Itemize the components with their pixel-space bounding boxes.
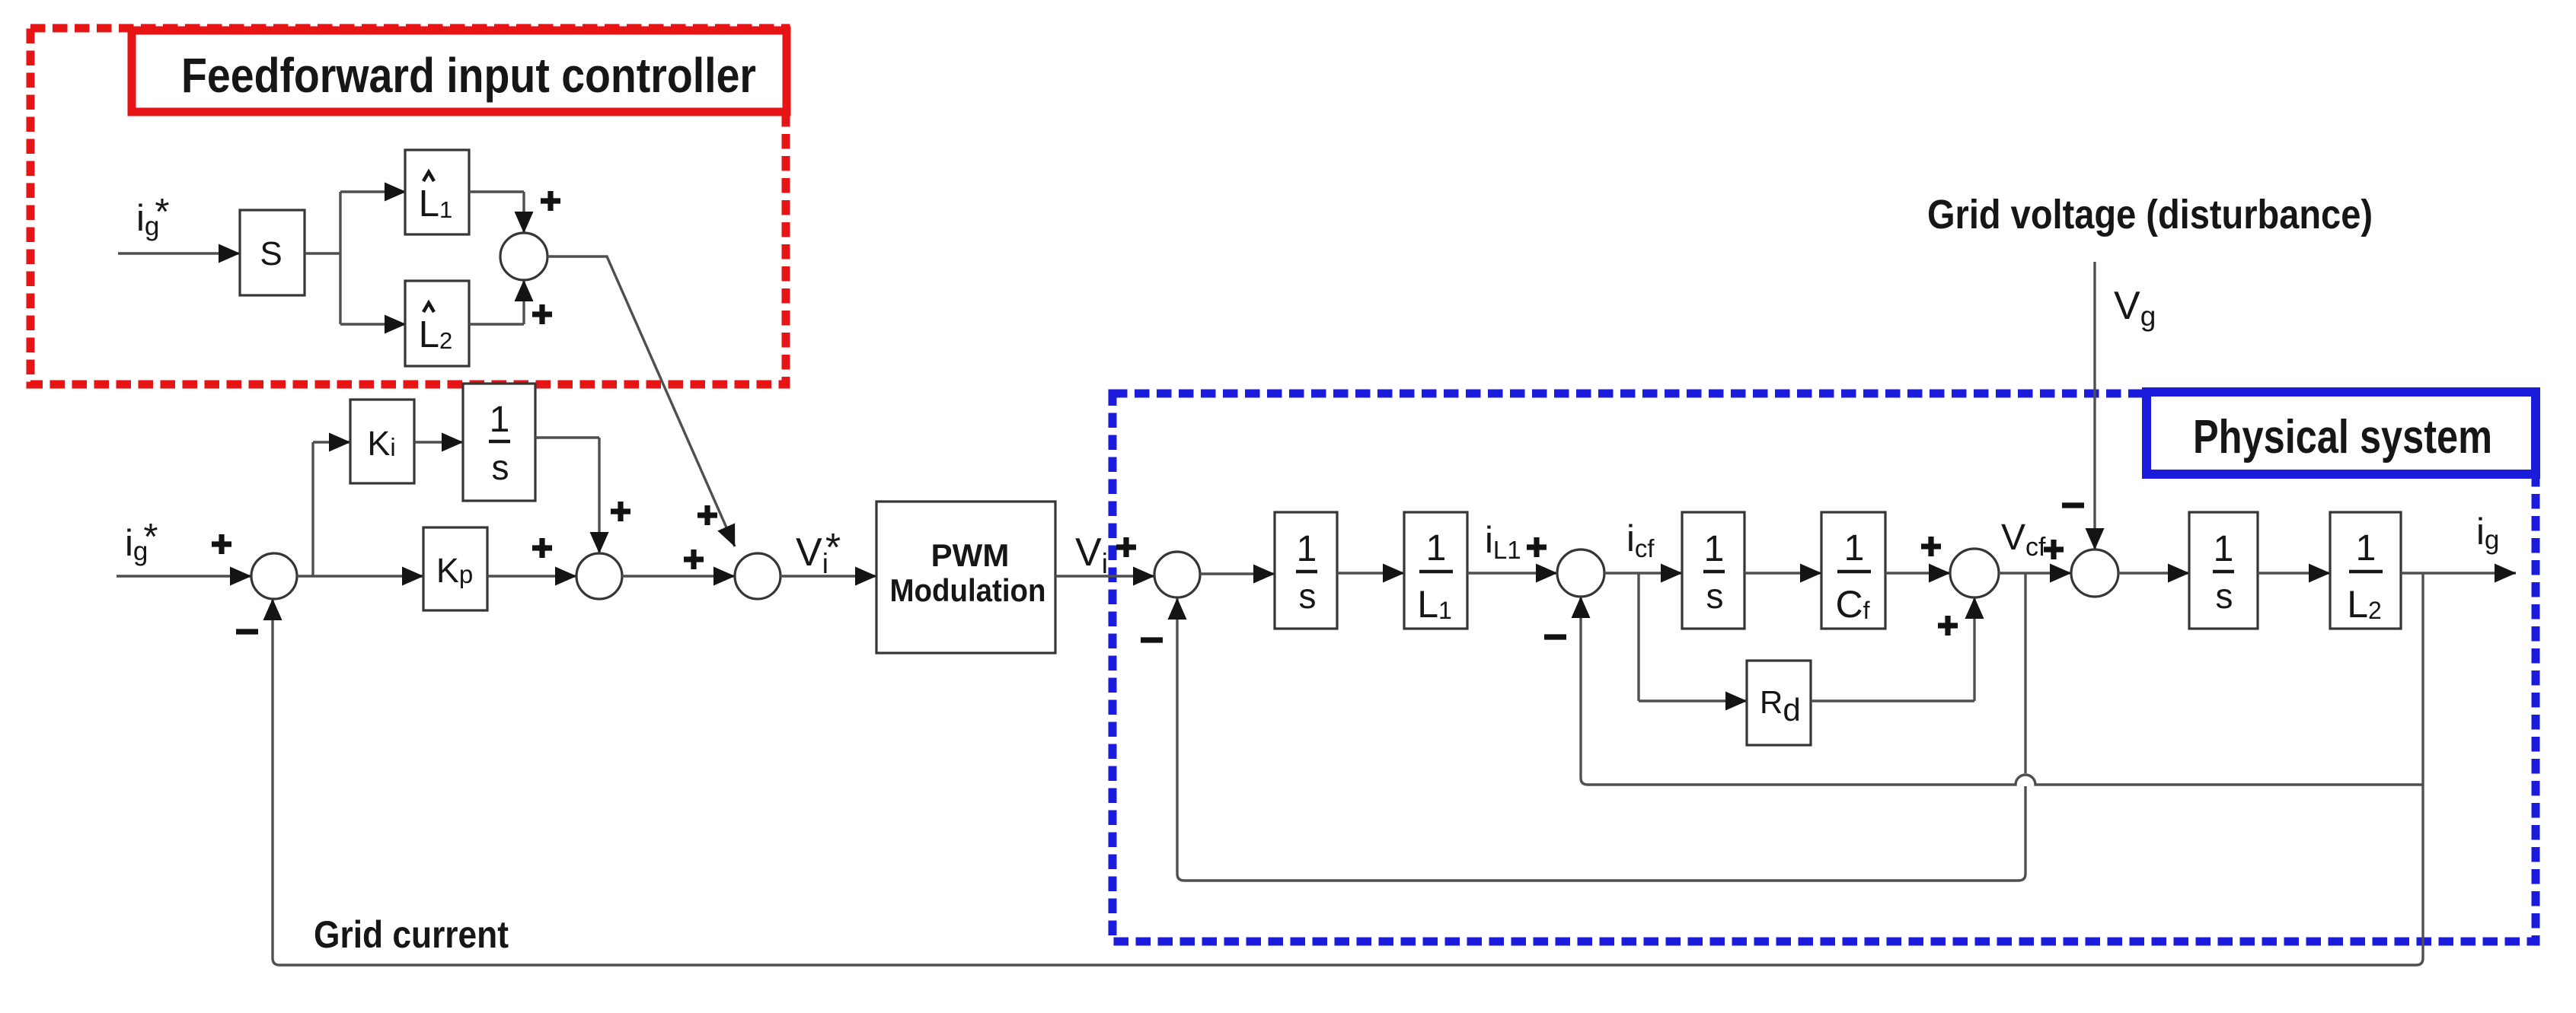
plus sign Vcf input to sum7	[2044, 540, 2064, 559]
wire branch to L1hat	[340, 190, 406, 193]
plus sign sum2 output into sum3	[684, 550, 704, 569]
summing junction sum3	[735, 553, 780, 599]
feedforward controller dashed boundary box	[30, 28, 786, 384]
wire branch down to Rd	[1637, 573, 1639, 701]
feedforward controller title box	[132, 30, 787, 112]
block Rd damping	[1747, 661, 1811, 745]
svg-text:1: 1	[1704, 529, 1725, 569]
minus sign sum5 feedback input	[1544, 634, 1566, 639]
summing junction feedforward	[500, 233, 547, 280]
svg-text:Vi*: Vi*	[796, 526, 841, 579]
plus sign iL1 input to sum5	[1527, 537, 1547, 557]
block gain 1/Cf	[1821, 512, 1885, 629]
wire branch vertical	[339, 192, 341, 324]
svg-text:s: s	[1299, 576, 1317, 616]
wire branch up to Ki	[311, 442, 314, 576]
wire Vcf feedback to sum4	[2024, 573, 2026, 773]
plus sign 1/Cf input to sum6	[1921, 537, 1941, 556]
block PWM modulation	[876, 502, 1055, 653]
block Kp	[423, 527, 487, 610]
wire L1hat to feedforward sum	[469, 190, 524, 193]
wire sum3 to PWM	[780, 575, 876, 577]
plus sign Kp input to sum2	[532, 538, 552, 558]
block L1hat	[405, 150, 469, 234]
block integrator 1/s plant3	[2189, 512, 2258, 629]
wire branch to L2hat	[340, 323, 406, 325]
svg-text:iL1: iL1	[1485, 520, 1521, 564]
wire grid current feedback to sum1	[273, 599, 2423, 965]
svg-text:Grid voltage (disturbance): Grid voltage (disturbance)	[1927, 192, 2373, 237]
svg-text:Vg: Vg	[2114, 284, 2156, 332]
wire Kp to sum2	[487, 575, 576, 577]
svg-text:1: 1	[1426, 528, 1447, 569]
minus sign Vg input to sum7	[2062, 502, 2084, 508]
wire sum6 to sum7	[1999, 572, 2071, 574]
plus sign sum1 input	[212, 534, 231, 554]
block Ki	[350, 400, 414, 483]
physical system title box	[2147, 392, 2536, 474]
wire feedforward sum output diagonal to sum3	[547, 256, 735, 546]
svg-text:ig*: ig*	[125, 517, 158, 566]
svg-text:1: 1	[2214, 529, 2234, 569]
svg-text:Vcf: Vcf	[2001, 518, 2046, 562]
wire plant2 to 1/Cf	[1744, 572, 1821, 574]
wire Vg into sum7	[2093, 262, 2096, 550]
svg-text:Grid current: Grid current	[314, 913, 509, 956]
wire sum7 to 1/s plant3	[2118, 572, 2189, 574]
svg-text:ig: ig	[2476, 511, 2499, 555]
wire sum5 to 1/s plant2	[1604, 572, 1682, 574]
wire plant1 to 1/L1	[1337, 572, 1404, 574]
svg-text:s: s	[492, 448, 509, 487]
wire 1/L1 to sum5	[1467, 572, 1557, 574]
wire sum4 to 1/s plant1	[1200, 572, 1275, 575]
svg-text:Physical system: Physical system	[2193, 411, 2492, 463]
block L2hat	[405, 281, 469, 366]
svg-text:1: 1	[2356, 528, 2376, 569]
wire 1/Cf to sum6	[1885, 572, 1950, 574]
summing junction sum4	[1154, 552, 1200, 597]
wire integrator to sum2	[535, 436, 599, 438]
summing junction sum5	[1557, 550, 1604, 597]
summing junction sum7	[2071, 550, 2118, 597]
svg-text:s: s	[1706, 576, 1724, 616]
svg-text:PWM: PWM	[931, 537, 1010, 573]
svg-text:Modulation: Modulation	[890, 572, 1046, 608]
minus sign sum4 feedback input	[1141, 637, 1163, 642]
block integrator 1/s plant1	[1275, 512, 1337, 629]
svg-text:s: s	[2216, 576, 2233, 616]
wire sum1 to Kp	[297, 575, 423, 577]
wire L2hat to feedforward sum	[469, 323, 524, 325]
block integrator 1/s controller	[463, 384, 535, 501]
summing junction sum2	[576, 553, 622, 599]
block S (derivative)	[240, 210, 305, 295]
plus sign feedforward input to sum3	[697, 505, 717, 525]
svg-text:icf: icf	[1626, 518, 1655, 562]
svg-text:1: 1	[1844, 528, 1865, 569]
plus sign L2hat input to sum	[532, 304, 552, 324]
plus sign integrator input to sum2	[611, 502, 630, 521]
plus sign Vi input to sum4	[1116, 537, 1136, 557]
plus sign L1hat input to sum	[541, 191, 560, 211]
wire ig feedback to sum5 with hop	[1581, 597, 2423, 785]
summing junction sum6	[1950, 549, 1999, 597]
wire plant3 to 1/L2	[2258, 572, 2330, 574]
svg-text:Vi: Vi	[1075, 530, 1108, 579]
svg-text:S: S	[260, 235, 282, 272]
svg-text:1: 1	[490, 400, 510, 440]
wire PWM to sum4	[1055, 575, 1154, 577]
wire Rd to sum6	[1811, 699, 1974, 702]
wire sum2 to sum3	[622, 575, 735, 577]
wire ig feedback down	[2421, 573, 2424, 785]
svg-text:Feedforward input controller: Feedforward input controller	[181, 48, 756, 103]
plus sign Rd input to sum6	[1938, 616, 1958, 636]
block integrator 1/s plant2	[1682, 512, 1744, 629]
physical system dashed boundary box	[1112, 393, 2536, 941]
minus sign sum1 feedback input	[236, 629, 258, 634]
svg-text:ig*: ig*	[136, 192, 169, 241]
block gain 1/L2	[2330, 512, 2401, 629]
svg-text:1: 1	[1297, 529, 1317, 569]
summing junction sum1	[251, 553, 297, 599]
block gain 1/L1	[1404, 512, 1467, 629]
wire ig* to sum1	[117, 575, 251, 577]
wire ig* to S block	[118, 252, 240, 254]
wire Ki to integrator	[414, 441, 463, 443]
wire 1/L2 to ig output	[2401, 572, 2516, 574]
wire S output to branch	[305, 252, 340, 254]
